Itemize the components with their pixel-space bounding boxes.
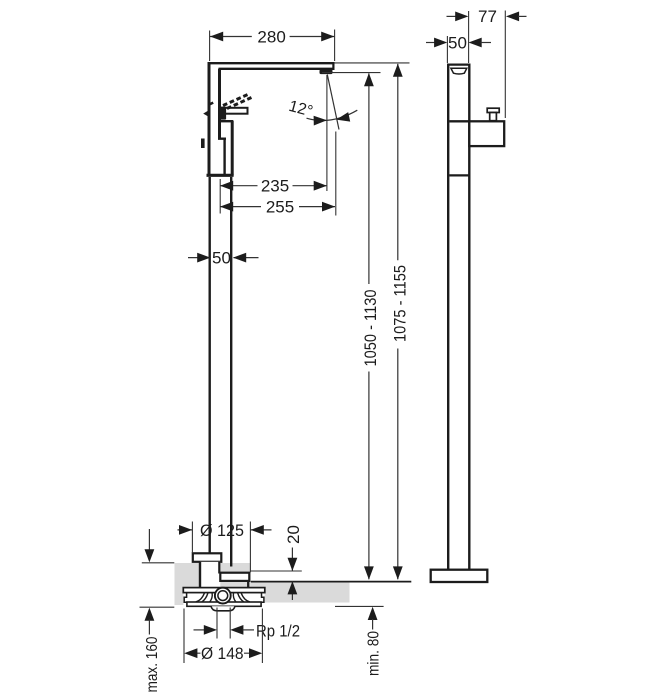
svg-text:77: 77 (478, 7, 497, 26)
dimension 280 line (210, 36, 334, 38)
side view knob stem (490, 113, 497, 121)
Rp 1/2 left arrow (204, 625, 217, 635)
Rp 1/2 left tail (194, 629, 206, 631)
dimension 77 left tail (447, 15, 457, 17)
dimension 20 bottom arrow (288, 581, 298, 594)
dimension 235 left arrow (220, 181, 233, 191)
dimension 77 extension line right (504, 11, 506, 119)
dimension 125 left arrow (179, 525, 192, 535)
dimension 235 line (220, 185, 327, 187)
12 deg tilted spray line (327, 75, 339, 130)
Rp 1/2 leader line (243, 629, 255, 631)
flange centre bottom bulge (211, 606, 235, 611)
side view joint line (449, 174, 469, 176)
side view column left edge (447, 64, 449, 570)
dimension 77 extension line left (468, 11, 470, 63)
dimension 280 right arrow (321, 32, 334, 42)
column upper inner right edge (218, 69, 221, 139)
inner step at valve (218, 139, 226, 175)
dimension 255 left arrow (220, 202, 233, 212)
side view column right edge (468, 64, 470, 570)
max.160 bottom arrow (145, 608, 155, 621)
side view column top cap (447, 63, 471, 65)
dimension 148 left arrow (184, 648, 197, 658)
mounting flange top plate (183, 588, 264, 593)
mounting flange body (white backing) (183, 588, 264, 606)
valve body bottom cap (207, 174, 234, 177)
dimension 125 extension line right (249, 522, 251, 573)
riser column right edge (230, 177, 232, 567)
side view knob cap (487, 108, 499, 112)
lever swing dash left of column (209, 103, 213, 105)
dimension 125 extension line left (191, 522, 193, 554)
dimension 20 vertical line (291, 548, 293, 601)
side view handle block (469, 121, 504, 146)
left small lug on body (201, 139, 205, 149)
column upper left edge (208, 62, 211, 175)
dimension 148 extension lines (184, 609, 262, 664)
flange left wing claws (196, 593, 212, 602)
valve body top cap (221, 120, 233, 122)
dimension 50 side left tail (426, 42, 436, 44)
dimension 50 side left arrow (434, 38, 447, 48)
side view body joint line at handle level (449, 120, 469, 122)
escutcheon step bar (220, 573, 249, 581)
dimension 50 left arrow (197, 253, 210, 263)
svg-text:280: 280 (257, 27, 285, 46)
flange boss inner circle (218, 591, 228, 601)
max.160 top arrow (145, 549, 155, 562)
riser column left edge (208, 177, 210, 554)
min.80 reference line (335, 605, 384, 607)
dimension 1050-1130 bottom arrow (364, 566, 374, 579)
valve body right edge (231, 121, 234, 176)
max.160 bottom reference line (140, 606, 175, 608)
dimension 20 top arrow (288, 558, 298, 571)
12 deg arc left arrow (314, 116, 327, 126)
svg-text:235: 235 (261, 177, 289, 196)
flange right wing claws (233, 593, 249, 602)
svg-text:255: 255 (266, 197, 294, 216)
svg-text:1075 - 1155: 1075 - 1155 (391, 265, 410, 342)
svg-text:Ø 125: Ø 125 (200, 521, 244, 540)
dimension 235 extension line left (219, 179, 221, 214)
dimension 148 right arrow (249, 648, 262, 658)
spout arm bottom line (219, 68, 334, 70)
max.160 bottom arrow line (148, 620, 150, 635)
min.80 arrow (368, 607, 378, 620)
flange left end molding (184, 593, 190, 606)
dimension 77 right tail (518, 15, 527, 17)
flange bottom plate (187, 602, 261, 606)
step bar right foot (247, 581, 249, 588)
dimension 280 extension line right (above spout tip) (334, 30, 336, 62)
floor gray band right (251, 583, 350, 603)
dimension 235 right arrow (314, 181, 327, 191)
dimension 125 tails (178, 529, 272, 531)
max.160 top reference line (142, 562, 175, 564)
dimension 235 extension line right (from outlet) (326, 75, 328, 191)
dimension 50 side right arrow (469, 38, 482, 48)
dimension 280 left arrow (210, 32, 223, 42)
side view aerator detail (451, 68, 467, 74)
escutcheon upper bar (193, 553, 222, 562)
dimension 1075-1155 bottom arrow (393, 566, 403, 579)
dimension 77 right arrow (506, 12, 519, 22)
Rp 1/2 right arrow (230, 625, 243, 635)
12 deg arc right arrow (336, 112, 350, 122)
svg-text:min. 80: min. 80 (366, 631, 383, 676)
dimension 255 right arrow (322, 202, 335, 212)
dimension 1050-1130 line (368, 73, 370, 579)
floor top line right of fixture (251, 581, 411, 583)
dimension 1075-1155 line (397, 64, 399, 579)
side view base plate (431, 570, 488, 582)
lever handle (solid position) (222, 108, 248, 114)
min.80 arrow line (372, 619, 374, 630)
svg-text:max. 160: max. 160 (144, 636, 161, 692)
max.160 top arrow line (148, 529, 150, 550)
dimension 50 side right tail (481, 42, 492, 44)
dimension 77 left arrow (455, 12, 468, 22)
extension line from spout tip to right (top reference) (335, 62, 410, 64)
lever pivot blob (219, 107, 226, 120)
escutcheon body block (200, 562, 220, 588)
svg-text:1050 - 1130: 1050 - 1130 (361, 290, 380, 367)
dimension 125 right arrow (251, 525, 264, 535)
lever left tip triangle (203, 110, 210, 118)
dimension 20 top reference line (251, 570, 302, 572)
spout outlet nub (320, 70, 333, 75)
dimension 1075-1155 top arrow (393, 64, 403, 77)
floor gray band left (under escutcheon) (175, 563, 251, 605)
dimension 280 extension line left (209, 31, 211, 62)
svg-text:Ø 148: Ø 148 (201, 644, 244, 663)
dimension 50 right arrow (233, 253, 246, 263)
dimension 255 line (220, 206, 335, 208)
dimension 1050-1130 top arrow (364, 73, 374, 86)
flange boss outer circle (215, 588, 231, 604)
12 deg arc (307, 110, 358, 120)
svg-text:50: 50 (448, 33, 467, 52)
lever handle raised position (dashed) (223, 94, 250, 106)
spout arm top line (208, 62, 335, 64)
dimension 50 side extension line left (446, 36, 448, 63)
Rp 1/2 extension lines (217, 608, 230, 639)
svg-text:20: 20 (284, 525, 303, 544)
flange right end molding (258, 593, 264, 606)
dimension 148 inner line segments (197, 652, 251, 654)
spout right end cap (332, 62, 334, 70)
extension line outlet bottom to 1050 dim (322, 72, 381, 74)
dimension 50 column tails (188, 257, 259, 259)
dimension 255 extension line right (335, 132, 337, 216)
svg-text:50: 50 (212, 248, 231, 267)
